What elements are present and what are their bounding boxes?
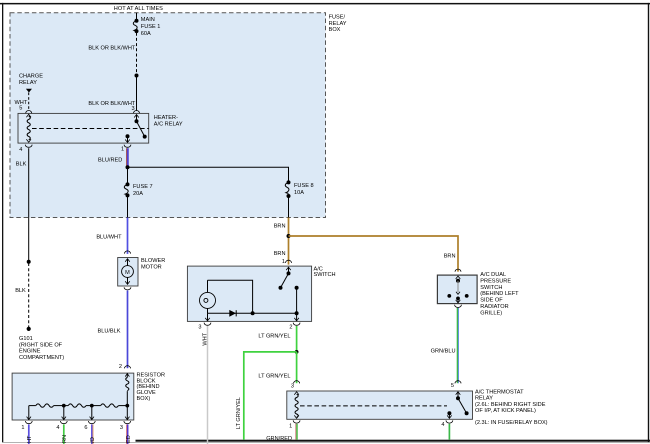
svg-text:BLU/RED: BLU/RED: [98, 158, 122, 164]
svg-text:GRILLE): GRILLE): [480, 310, 502, 316]
svg-text:4: 4: [441, 422, 444, 428]
A/C switch indicator lamp: [200, 292, 216, 308]
svg-text:GRN/BLU: GRN/BLU: [431, 349, 456, 355]
svg-text:BLU/BLK: BLU/BLK: [97, 328, 120, 334]
thermostat relay switch: [447, 392, 469, 419]
svg-text:BRN: BRN: [274, 251, 286, 257]
junction dot BLU/RED node: [126, 165, 130, 169]
A/C dual pressure switch S1: [437, 269, 519, 316]
blower motor M1: [118, 251, 166, 290]
svg-text:PRESSURE: PRESSURE: [480, 278, 511, 284]
svg-text:SWITCH: SWITCH: [314, 272, 336, 278]
svg-text:BRN: BRN: [274, 224, 286, 230]
wire LT GRN/YEL branch going down left: [236, 352, 297, 440]
svg-text:2: 2: [289, 325, 292, 331]
fuse FUSE 8 10A: [285, 180, 313, 198]
svg-text:ENGINE: ENGINE: [19, 349, 41, 355]
thermostat relay coil: [294, 392, 299, 419]
svg-text:BOX): BOX): [137, 396, 151, 402]
wire branch to fuse 8: [128, 167, 289, 182]
heater relay coil: [26, 114, 31, 142]
svg-text:WHT: WHT: [202, 332, 208, 345]
svg-text:4: 4: [56, 425, 59, 431]
svg-text:A/C RELAY: A/C RELAY: [154, 122, 183, 128]
wire LT GRN/YEL to thermostat relay pin 3: [258, 352, 296, 390]
svg-text:/O: /O: [90, 436, 96, 443]
A/C switch diode: [229, 310, 236, 317]
fuse MAIN FUSE 1 60A: [133, 17, 160, 37]
svg-text:GRN/RED: GRN/RED: [266, 436, 292, 442]
svg-text:3: 3: [291, 384, 294, 390]
svg-text:MAIN: MAIN: [141, 17, 155, 23]
wire below fuse 8: [288, 196, 290, 218]
svg-text:LT GRN/YEL: LT GRN/YEL: [258, 334, 290, 340]
A/C switch pin 3: [198, 313, 211, 330]
svg-text:FUSE 7: FUSE 7: [133, 184, 153, 190]
svg-text:G101: G101: [19, 336, 33, 342]
wire: dashed WHT from charge relay to pin 5: [28, 93, 30, 111]
svg-text:HOT AT ALL TIMES: HOT AT ALL TIMES: [114, 6, 163, 12]
svg-text:60A: 60A: [141, 31, 151, 37]
thermostat relay pin 5 connector arc: [455, 381, 461, 384]
svg-text:COMPARTMENT): COMPARTMENT): [19, 355, 64, 361]
wire BLK from relay pin 4 down: [16, 148, 29, 262]
svg-text:1: 1: [282, 259, 285, 265]
svg-text:4: 4: [19, 147, 22, 153]
resistor block pin 1: [21, 421, 33, 444]
thermostat relay pin 1 connector arc: [289, 420, 300, 429]
wire: solid to heater relay pin 3: [136, 76, 138, 111]
wire BLU/WHT to blower motor: [96, 218, 127, 254]
svg-text:HT: HT: [27, 435, 33, 443]
svg-text:BLK OR BLK/WHT: BLK OR BLK/WHT: [88, 101, 136, 107]
splice dot on main wire: [135, 74, 139, 78]
svg-text:OF I/P, AT KICK PANEL): OF I/P, AT KICK PANEL): [475, 408, 536, 414]
wire BLU/RED from relay pin 1: [98, 148, 128, 167]
svg-text:(2.3L: IN FUSE/RELAY BOX): (2.3L: IN FUSE/RELAY BOX): [475, 420, 548, 426]
thermostat relay pin 3 connector arc: [294, 381, 300, 384]
resistor block pin 2 connector arc: [125, 366, 131, 369]
heater relay pin 5 connector arc: [26, 110, 32, 113]
svg-text:SIDE OF: SIDE OF: [480, 298, 503, 304]
A/C thermostat relay K1 box: [287, 390, 548, 427]
junction dot BRN node: [287, 234, 291, 238]
label HOT AT ALL TIMES: [114, 6, 163, 12]
wire down to fuse 7: [127, 167, 129, 184]
label FUSE/RELAY BOX: [329, 14, 347, 33]
svg-text:RELAY: RELAY: [329, 21, 347, 27]
heater relay switch: [125, 115, 147, 143]
label BLK OR BLK/WHT (upper): [88, 46, 136, 52]
svg-text:BLK OR BLK/WHT: BLK OR BLK/WHT: [88, 46, 136, 52]
heater relay dashed link line: [32, 128, 149, 130]
svg-text:BLK: BLK: [15, 288, 26, 294]
A/C switch internal switch: [279, 267, 299, 313]
A/C switch pin 1 connector arc: [286, 260, 292, 263]
svg-text:BOX: BOX: [329, 27, 341, 33]
svg-text:A/C THERMOSTAT: A/C THERMOSTAT: [475, 390, 524, 396]
label WHT and pin 5: [15, 100, 28, 111]
svg-text:LT GRN/YEL: LT GRN/YEL: [236, 397, 242, 429]
svg-text:10A: 10A: [294, 190, 304, 196]
junction dot LT GRN/YEL node: [295, 350, 299, 354]
A/C switch pin 2: [289, 313, 300, 330]
svg-text:6: 6: [84, 425, 87, 431]
thermostat relay pin 4 connector arc: [441, 420, 452, 428]
svg-text:1: 1: [121, 147, 124, 153]
svg-text:3: 3: [120, 425, 123, 431]
heater-A/C relay U1 box: [18, 113, 183, 143]
svg-text:2: 2: [119, 364, 122, 370]
wire BRN below fuse 8: [274, 218, 289, 265]
svg-text:ED: ED: [126, 435, 132, 443]
wire BLU/BLK to resistor block: [97, 291, 127, 371]
wire GRN/RED below thermostat pin 1: [266, 424, 297, 442]
svg-text:(2.6L: BEHIND RIGHT SIDE: (2.6L: BEHIND RIGHT SIDE: [475, 402, 546, 408]
resistor block pin 6: [84, 421, 96, 444]
svg-text:BLK: BLK: [16, 162, 27, 168]
svg-text:RELAY: RELAY: [19, 80, 37, 86]
svg-text:(BEHIND LEFT: (BEHIND LEFT: [480, 291, 519, 297]
heater relay pin 3 connector arc: [134, 110, 140, 113]
svg-text:A/C DUAL: A/C DUAL: [480, 272, 506, 278]
wire: dashed BLK OR BLK/WHT below main fuse: [136, 33, 138, 74]
wire BLK dashed to ground: [15, 263, 29, 328]
svg-text:BLOWER: BLOWER: [141, 258, 165, 264]
fuse/relay box background: [10, 13, 326, 218]
svg-text:BLU/WHT: BLU/WHT: [96, 234, 122, 240]
wire: feed from box top to main fuse 1: [136, 13, 138, 21]
svg-text:5: 5: [19, 105, 22, 111]
resistor block internal resistors: [29, 374, 130, 408]
resistor block box: [12, 373, 165, 420]
A/C switch U2 box: [187, 266, 335, 321]
label BLK OR BLK/WHT (lower): [88, 101, 136, 112]
svg-text:BRN: BRN: [444, 254, 456, 260]
thermostat relay dashed link line: [300, 405, 447, 407]
resistor block pin 3: [120, 421, 132, 444]
wire GRN/BLU from pressure switch to thermostat pin 5: [431, 308, 459, 389]
wire LT GRN/YEL from A/C switch pin 2: [258, 326, 296, 352]
svg-text:1: 1: [289, 423, 292, 429]
svg-text:3: 3: [198, 325, 201, 331]
svg-text:(RIGHT SIDE OF: (RIGHT SIDE OF: [19, 343, 63, 349]
fuse FUSE 7 20A: [124, 182, 152, 197]
heater relay pin 1 connector arc: [121, 145, 131, 153]
svg-text:HEATER-: HEATER-: [154, 115, 178, 121]
svg-text:FUSE 8: FUSE 8: [294, 183, 314, 189]
svg-text:5: 5: [451, 383, 454, 389]
resistor block pin 4: [56, 421, 68, 444]
ground G101: [19, 327, 64, 361]
svg-text:LT GRN/YEL: LT GRN/YEL: [258, 374, 290, 380]
svg-text:20A: 20A: [133, 191, 143, 197]
svg-text:RADIATOR: RADIATOR: [480, 304, 508, 310]
splice dot on BLK wire: [27, 260, 31, 264]
svg-text:MOTOR: MOTOR: [141, 264, 162, 270]
A/C switch lamp loop wiring: [208, 280, 299, 315]
label BRN pin 1 of A/C switch: [274, 251, 286, 265]
wire GRN below thermostat pin 4: [448, 424, 450, 440]
resistor block pin risers: [27, 406, 130, 420]
svg-text:1: 1: [21, 425, 24, 431]
wire BRN branch to pressure switch: [289, 236, 459, 272]
svg-text:FUSE 1: FUSE 1: [141, 24, 161, 30]
svg-text:RELAY: RELAY: [475, 396, 493, 402]
svg-text:SWITCH: SWITCH: [480, 285, 502, 291]
charge relay label and arrow: [19, 74, 43, 93]
svg-text:RN: RN: [62, 435, 68, 443]
wire below fuse 7: [127, 195, 129, 217]
wire WHT from A/C switch pin 3: [202, 326, 208, 444]
svg-text:CHARGE: CHARGE: [19, 74, 43, 80]
svg-text:FUSE/: FUSE/: [329, 14, 346, 20]
heater relay pin 4 connector arc: [19, 145, 32, 153]
bottom heavy bar: [136, 440, 650, 442]
svg-text:M: M: [125, 270, 130, 276]
